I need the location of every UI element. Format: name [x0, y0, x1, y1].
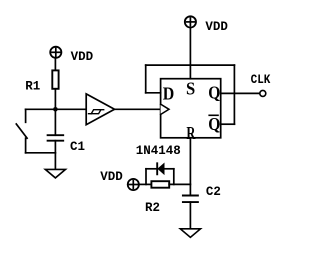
svg-text:VDD: VDD	[205, 20, 228, 34]
wire diode branch left horizontal	[146, 168, 157, 170]
switch S1 blade	[16, 124, 27, 138]
ground (bottom)	[180, 229, 200, 238]
VDD supply symbol (top left)	[50, 47, 61, 58]
svg-text:R2: R2	[145, 201, 160, 215]
wire R1 to node A	[54, 89, 56, 110]
wire diode branch left vertical	[145, 169, 147, 185]
hysteresis symbol	[89, 110, 104, 114]
flip-flop U2 box	[161, 79, 221, 138]
svg-text:R1: R1	[25, 80, 40, 94]
clock pin triangle	[161, 104, 169, 114]
resistor R1	[52, 70, 58, 88]
VDD supply symbol (bottom)	[128, 179, 139, 190]
wire VDD to R1	[54, 58, 56, 71]
wire Qbar output	[221, 123, 235, 125]
CLK terminal circle	[260, 90, 266, 96]
wire feedback top horizontal	[146, 64, 235, 66]
wire C1 to ground	[54, 141, 56, 170]
wire S pin to VDD	[189, 28, 191, 79]
wire buffer output to flip-flop clock	[115, 108, 161, 110]
diode D1 triangle	[158, 164, 164, 174]
wire R pin down	[189, 138, 191, 196]
switch S1 top contact	[25, 109, 27, 122]
capacitor C1	[48, 135, 64, 141]
ground (left)	[45, 169, 65, 178]
wire node A to buffer input	[55, 108, 86, 110]
wire C2 to ground	[189, 202, 191, 229]
svg-text:C2: C2	[206, 185, 221, 199]
svg-text:D: D	[163, 83, 175, 103]
wire feedback right vertical	[233, 65, 235, 124]
svg-text:C1: C1	[70, 140, 85, 154]
wire diode branch right vertical	[173, 169, 175, 185]
svg-text:CLK: CLK	[251, 73, 271, 87]
wire feedback to D input	[146, 92, 161, 94]
VDD supply symbol (top)	[185, 16, 196, 27]
wire Q output to CLK terminal	[221, 92, 260, 94]
svg-text:VDD: VDD	[71, 50, 94, 64]
svg-text:Q: Q	[208, 82, 220, 102]
svg-text:1N4148: 1N4148	[136, 144, 181, 158]
schmitt buffer U1	[86, 94, 114, 125]
capacitor C2	[183, 196, 198, 203]
node A junction dot	[53, 107, 58, 112]
resistor R2	[151, 181, 169, 188]
wire switch to C1 bottom	[26, 152, 56, 154]
wire feedback left vertical	[145, 65, 147, 93]
svg-text:S: S	[186, 79, 195, 99]
wire diode branch right horizontal	[164, 168, 174, 170]
wire VDD to R2	[139, 183, 151, 185]
Qbar overbar	[209, 114, 218, 116]
svg-text:VDD: VDD	[100, 170, 123, 184]
wire node A to C1 top	[54, 109, 56, 135]
switch S1 bottom contact	[25, 138, 27, 153]
svg-text:Q: Q	[208, 114, 220, 134]
wire R2 to R pin	[169, 183, 190, 185]
diode D1 cathode bar	[156, 163, 158, 174]
wire node A to switch	[26, 108, 56, 110]
